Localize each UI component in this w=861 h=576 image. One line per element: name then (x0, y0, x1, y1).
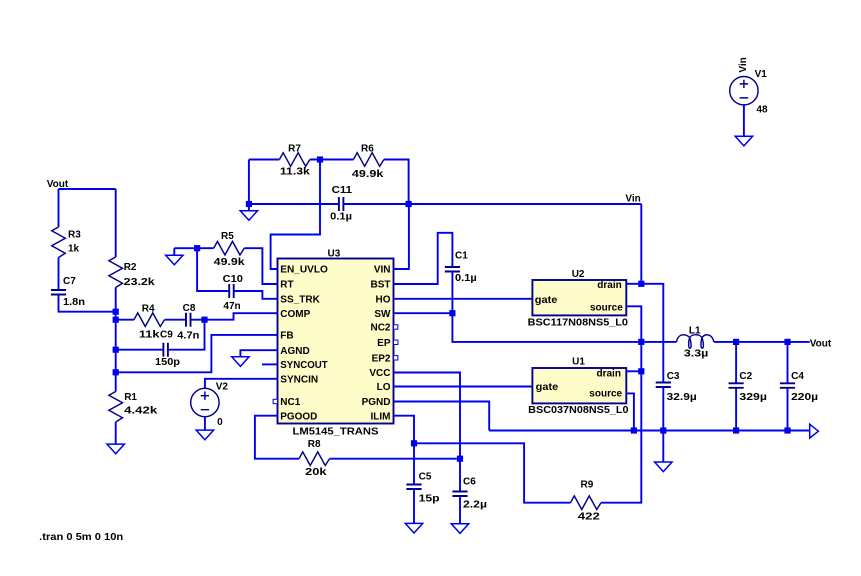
pin EP2 open square (394, 356, 398, 360)
inductor L1 (677, 335, 714, 349)
voltage source V1 (730, 77, 758, 105)
ground below V1 (735, 136, 752, 146)
svg-text:Vin: Vin (625, 193, 640, 204)
junction C9 row (113, 347, 119, 353)
svg-text:C1: C1 (455, 250, 468, 261)
svg-text:4.42k: 4.42k (124, 406, 158, 417)
wire to R7 (249, 159, 280, 161)
wire SYNCOUT stub (262, 363, 278, 365)
wire SYNCIN to V2 (205, 379, 278, 389)
svg-text:1k: 1k (68, 243, 80, 254)
ground at C11 (240, 211, 257, 221)
ground below V2 (196, 430, 213, 440)
svg-text:2.2µ: 2.2µ (463, 500, 487, 511)
svg-text:150p: 150p (155, 357, 180, 368)
junction Vin/drain (638, 281, 644, 287)
capacitor C4 (780, 383, 795, 388)
svg-text:PGND: PGND (362, 397, 391, 408)
ground below C3 (655, 462, 672, 472)
junction R4 row (113, 317, 119, 323)
wire FB node vertical (115, 288, 117, 392)
svg-text:C8: C8 (183, 303, 196, 314)
wire SW to L1 (452, 313, 676, 342)
svg-text:23.2k: 23.2k (124, 277, 156, 288)
svg-text:BST: BST (371, 280, 391, 291)
svg-text:329µ: 329µ (739, 392, 767, 403)
wire to C5 (413, 443, 415, 484)
wire C6 to ground (459, 496, 461, 524)
svg-text:RT: RT (280, 280, 293, 291)
wire R3 to C7 (58, 258, 60, 291)
svg-text:C10: C10 (223, 274, 244, 285)
wire COMP node to COMP pin (205, 313, 278, 320)
svg-text:LM5145_TRANS: LM5145_TRANS (293, 427, 379, 438)
svg-text:0: 0 (217, 417, 223, 428)
wire to C9 (116, 349, 164, 351)
wire R8 to VCC node (330, 458, 461, 460)
svg-text:EP: EP (377, 338, 391, 349)
svg-text:COMP: COMP (280, 309, 310, 320)
svg-text:0.1µ: 0.1µ (330, 211, 352, 222)
svg-text:gate: gate (535, 295, 558, 306)
junction VCC/R8/C6 (457, 456, 463, 462)
svg-text:V1: V1 (755, 69, 768, 80)
svg-text:NC2: NC2 (370, 323, 390, 334)
resistor R9 (571, 496, 602, 510)
svg-text:source: source (589, 389, 622, 400)
ground below C5 (405, 523, 422, 533)
wire LO to U1 gate (394, 386, 533, 388)
svg-text:R9: R9 (581, 480, 594, 491)
svg-text:NC1: NC1 (280, 397, 300, 408)
wire R1 to ground (115, 422, 117, 444)
capacitor C8 (186, 313, 191, 327)
wire U1 drain to SW junction (640, 342, 642, 371)
resistor R2 (109, 257, 123, 288)
junction C7/R2 node (113, 309, 119, 315)
svg-text:drain: drain (597, 368, 621, 379)
resistor R5 (214, 241, 245, 255)
wire U1 drain (626, 370, 641, 372)
wire drain to C3 (641, 284, 663, 383)
junction U1 source on rail (631, 427, 637, 433)
svg-text:R3: R3 (68, 230, 81, 241)
svg-text:3.3µ: 3.3µ (684, 349, 709, 360)
svg-text:0.1µ: 0.1µ (455, 273, 477, 284)
junction ILIM/C5 (411, 440, 417, 446)
svg-text:11.3k: 11.3k (280, 167, 311, 178)
resistor R3 (52, 227, 66, 258)
ground below R1 (107, 444, 124, 454)
svg-text:AGND: AGND (280, 346, 309, 357)
wire to C6 (459, 459, 461, 492)
junction SW node FETs (638, 339, 644, 345)
wire C2 top lead (735, 342, 737, 383)
wire gnd segment to C11 (249, 203, 339, 205)
svg-text:EP2: EP2 (372, 353, 391, 364)
wire PGOOD to R8 (255, 416, 299, 459)
wire ground rail (489, 430, 810, 432)
voltage source V2 (191, 388, 219, 416)
svg-text:SW: SW (374, 309, 391, 320)
wire C7 to FB node (59, 295, 116, 312)
svg-text:15p: 15p (419, 494, 440, 505)
svg-text:422: 422 (578, 511, 601, 522)
capacitor C11 (339, 197, 344, 211)
svg-text:48: 48 (756, 105, 768, 116)
junction C2 top (733, 339, 739, 345)
resistor R1 (109, 392, 123, 423)
wire C9 to COMP node (168, 320, 205, 350)
wire FB pin to divider (116, 335, 278, 372)
wire R6 right down (384, 160, 409, 205)
junction U1 drain / R9 (638, 368, 644, 374)
wire R5 to RT pin (244, 248, 277, 284)
svg-text:4.7n: 4.7n (177, 330, 199, 341)
junction SW (449, 310, 455, 316)
junction FB row (113, 369, 119, 375)
svg-text:U3: U3 (328, 248, 341, 259)
wire ground to R5 (174, 247, 213, 249)
junction C2 on rail (733, 427, 739, 433)
wire C1 to SW (451, 272, 453, 314)
svg-text:SS_TRK: SS_TRK (280, 294, 320, 305)
junction R7/R6 (317, 156, 323, 162)
svg-text:C4: C4 (791, 371, 804, 382)
wire ILIM to R9 (414, 443, 571, 502)
wire ground stem R5 (173, 248, 175, 255)
ground AGND (232, 357, 249, 367)
transistor U2 body (BSC117N08NS5_L0) (532, 280, 626, 315)
wire V1 to ground (743, 105, 745, 136)
capacitor C10 (229, 284, 234, 298)
resistor R7 (279, 153, 310, 167)
wire R9 to SW node (601, 371, 641, 502)
capacitor C9 (163, 343, 168, 357)
wire AGND to ground (240, 350, 277, 357)
capacitor C1 (445, 267, 460, 272)
svg-text:C5: C5 (419, 472, 432, 483)
svg-text:ILIM: ILIM (371, 411, 391, 422)
wire C2 bottom lead (735, 388, 737, 431)
wire VIN pin riser (394, 204, 409, 269)
wire C4 top lead (787, 342, 789, 383)
svg-text:R5: R5 (221, 231, 234, 242)
svg-text:R1: R1 (124, 392, 137, 403)
svg-text:C3: C3 (667, 371, 680, 382)
ground at R5 (166, 255, 183, 265)
junction R5/C10 (194, 245, 200, 251)
wire VCC down (394, 373, 461, 459)
capacitor C6 (452, 492, 467, 497)
wire BST to C1 (394, 233, 453, 284)
svg-text:BSC037N08NS5_L0: BSC037N08NS5_L0 (528, 405, 629, 416)
svg-text:1.8n: 1.8n (63, 297, 85, 308)
wire SW pin (394, 312, 453, 314)
svg-text:32.9µ: 32.9µ (667, 392, 697, 403)
wire C4 bottom lead (787, 388, 789, 431)
svg-text:C6: C6 (463, 476, 476, 487)
svg-text:EN_UVLO: EN_UVLO (280, 265, 328, 276)
svg-text:L1: L1 (689, 326, 701, 337)
svg-text:V2: V2 (216, 381, 229, 392)
capacitor C7 (51, 290, 66, 295)
junction VIN riser (406, 201, 412, 207)
svg-text:R4: R4 (142, 304, 155, 315)
op-amp U3 body (LM5145_TRANS) (278, 259, 394, 424)
svg-text:R2: R2 (124, 262, 137, 273)
wire R7 left down (248, 160, 250, 205)
pin EP open square (394, 340, 398, 344)
svg-text:C9: C9 (160, 329, 173, 340)
svg-text:VIN: VIN (374, 265, 391, 276)
wire U1 source to rail (626, 393, 634, 430)
ground below C6 (451, 524, 468, 534)
svg-text:20k: 20k (305, 467, 327, 478)
svg-text:R7: R7 (288, 143, 301, 154)
svg-text:U2: U2 (572, 269, 585, 280)
resistor R4 (134, 313, 165, 327)
wire R7 to R6 (310, 159, 354, 161)
svg-text:U1: U1 (572, 356, 585, 367)
svg-text:C7: C7 (63, 276, 76, 287)
wire L1 to Vout (714, 341, 810, 343)
wire EN_UVLO path (271, 160, 320, 270)
svg-text:drain: drain (597, 280, 621, 291)
svg-text:HO: HO (376, 294, 391, 305)
transistor U1 body (BSC037N08NS5_L0) (532, 368, 626, 403)
wire to C10 (197, 248, 229, 291)
wire HO to U2 gate (394, 298, 533, 300)
junction C4 top (784, 339, 790, 345)
wire C5 to ground (413, 489, 415, 523)
svg-text:FB: FB (280, 331, 293, 342)
wire Vout to R2 (115, 189, 117, 257)
svg-text:47n: 47n (223, 301, 240, 312)
wire V2 to ground (204, 417, 206, 430)
port arrow at rail end (810, 424, 819, 438)
resistor R8 (299, 452, 330, 466)
wire C8 to COMP node (191, 319, 205, 321)
junction C4 on rail (784, 427, 790, 433)
svg-text:SYNCIN: SYNCIN (280, 374, 318, 385)
svg-text:VCC: VCC (369, 368, 390, 379)
wire to R4 (116, 319, 134, 321)
capacitor C2 (729, 383, 744, 388)
svg-text:LO: LO (377, 382, 391, 393)
svg-text:source: source (590, 302, 623, 313)
svg-text:49.9k: 49.9k (214, 257, 246, 268)
svg-text:R6: R6 (361, 143, 374, 154)
wire U2 drain (626, 283, 641, 285)
wire C3 bottom (662, 387, 664, 431)
pin NC1 open square (273, 399, 277, 403)
wire Vin rail down to drain (640, 204, 642, 284)
svg-text:gate: gate (536, 382, 559, 393)
wire Vout to R3 (58, 189, 60, 227)
svg-text:Vout: Vout (810, 338, 832, 349)
wire U2 source to SW (626, 306, 641, 342)
capacitor C3 (656, 383, 671, 388)
pin NC2 open square (394, 325, 398, 329)
svg-text:11k: 11k (139, 330, 160, 341)
wire ILIM down (394, 416, 415, 444)
junction C11 gnd (246, 201, 252, 207)
capacitor C5 (406, 485, 421, 490)
svg-text:BSC117N08NS5_L0: BSC117N08NS5_L0 (528, 318, 629, 329)
resistor R6 (353, 153, 384, 167)
svg-text:R8: R8 (308, 439, 321, 450)
wire stem gnd C11 (248, 204, 250, 211)
svg-text:220µ: 220µ (791, 392, 818, 403)
svg-text:.tran 0 5m 0 10n: .tran 0 5m 0 10n (39, 532, 123, 543)
svg-text:C2: C2 (739, 371, 752, 382)
wire C10 to SS_TRK pin (234, 291, 278, 299)
svg-text:Vin: Vin (738, 57, 749, 72)
junction C3 on rail (660, 427, 666, 433)
wire PGND to rail (394, 402, 490, 431)
wire Vin rail (343, 203, 641, 205)
svg-text:49.9k: 49.9k (352, 169, 384, 180)
svg-text:C11: C11 (332, 185, 353, 196)
svg-text:SYNCOUT: SYNCOUT (280, 360, 327, 371)
wire rail to ground C3 (662, 431, 664, 463)
svg-text:PGOOD: PGOOD (280, 411, 317, 422)
wire Vout top horizontal (59, 188, 116, 190)
wire R4 to C8 (165, 319, 187, 321)
junction COMP node (201, 317, 207, 323)
